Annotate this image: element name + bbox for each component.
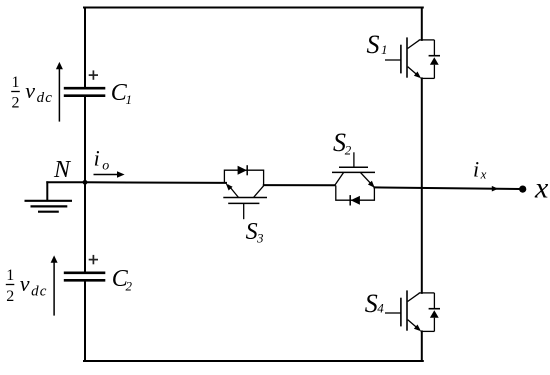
svg-text:i: i xyxy=(94,145,100,170)
svg-text:dc: dc xyxy=(31,283,48,299)
svg-text:1: 1 xyxy=(381,42,388,57)
svg-text:4: 4 xyxy=(377,301,384,316)
svg-text:x: x xyxy=(534,172,549,205)
svg-text:S: S xyxy=(365,289,378,318)
svg-text:dc: dc xyxy=(37,90,54,106)
svg-text:2: 2 xyxy=(6,288,14,305)
svg-text:N: N xyxy=(53,157,72,183)
svg-text:2: 2 xyxy=(126,279,133,294)
svg-text:2: 2 xyxy=(345,143,352,158)
svg-text:o: o xyxy=(102,158,109,173)
svg-text:2: 2 xyxy=(12,94,20,111)
svg-text:1: 1 xyxy=(126,92,133,107)
svg-text:S: S xyxy=(246,219,258,245)
svg-text:v: v xyxy=(25,78,35,103)
svg-text:v: v xyxy=(20,271,30,296)
svg-text:1: 1 xyxy=(6,267,14,284)
svg-text:1: 1 xyxy=(12,74,20,91)
svg-text:S: S xyxy=(367,30,380,59)
svg-text:i: i xyxy=(473,157,479,182)
svg-text:x: x xyxy=(480,167,487,182)
svg-text:3: 3 xyxy=(256,231,264,246)
